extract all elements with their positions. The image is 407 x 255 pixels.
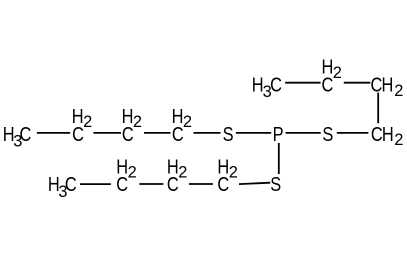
svg-text:2: 2	[128, 164, 137, 182]
top butyl: H3C label	[252, 73, 282, 101]
svg-text:H: H	[382, 73, 394, 96]
svg-text:C: C	[322, 73, 334, 96]
bottom butyl: bond C2-C3	[189, 183, 213, 185]
middle butyl: bond C1-C2	[94, 132, 122, 134]
bond S-P	[236, 132, 271, 134]
svg-text:C: C	[122, 122, 134, 145]
middle butyl: bond C3-S	[194, 132, 221, 134]
middle CH2 label right end	[371, 122, 404, 149]
svg-text:S: S	[223, 122, 234, 145]
svg-text:C: C	[217, 172, 229, 195]
bottom butyl: H3C label	[48, 172, 77, 200]
top butyl: H2 above C	[322, 55, 342, 82]
svg-text:2: 2	[83, 113, 92, 131]
middle butyl: H2 above C2	[122, 104, 142, 131]
bottom butyl: bond C1-C2	[139, 183, 163, 185]
svg-text:C: C	[65, 172, 77, 195]
svg-text:S: S	[322, 122, 333, 145]
svg-text:C: C	[167, 172, 179, 195]
svg-text:2: 2	[394, 131, 403, 149]
bond S-CH2 right	[337, 132, 369, 134]
middle butyl: H2 above C1	[72, 104, 92, 131]
top butyl: bond C-CH2	[344, 82, 371, 84]
bottom butyl: bond C3-S	[239, 183, 270, 184]
bottom butyl: H2 above C2	[167, 155, 187, 182]
svg-text:C: C	[72, 122, 84, 145]
middle butyl: H2 above C3	[172, 104, 192, 131]
svg-text:C: C	[116, 172, 128, 195]
top butyl: CH2 label	[371, 73, 404, 100]
svg-text:C: C	[20, 122, 32, 145]
middle butyl: bond H3C-C1	[37, 132, 70, 134]
svg-text:H: H	[382, 122, 394, 145]
bottom butyl: bond H3C-C1	[80, 183, 111, 185]
svg-text:2: 2	[133, 113, 142, 131]
svg-text:2: 2	[183, 113, 192, 131]
svg-text:S: S	[270, 172, 281, 195]
bond P-S right	[286, 132, 321, 134]
svg-text:C: C	[172, 122, 184, 145]
bottom butyl: H2 above C3	[217, 155, 237, 182]
svg-text:2: 2	[394, 82, 403, 100]
svg-text:C: C	[371, 73, 383, 96]
bond CH2 vertical to middle CH2	[377, 93, 379, 124]
svg-text:2: 2	[333, 64, 342, 82]
svg-text:C: C	[371, 122, 383, 145]
svg-text:2: 2	[229, 164, 238, 182]
svg-text:P: P	[273, 122, 284, 145]
middle butyl: H3C label	[3, 122, 32, 150]
middle butyl: bond C2-C3	[144, 132, 171, 134]
svg-text:2: 2	[178, 164, 187, 182]
bottom butyl: H2 above C1	[116, 155, 136, 182]
top butyl: bond H3C-CH2	[285, 82, 320, 84]
svg-text:C: C	[270, 73, 282, 96]
bond P vertical to bottom S	[278, 143, 280, 174]
